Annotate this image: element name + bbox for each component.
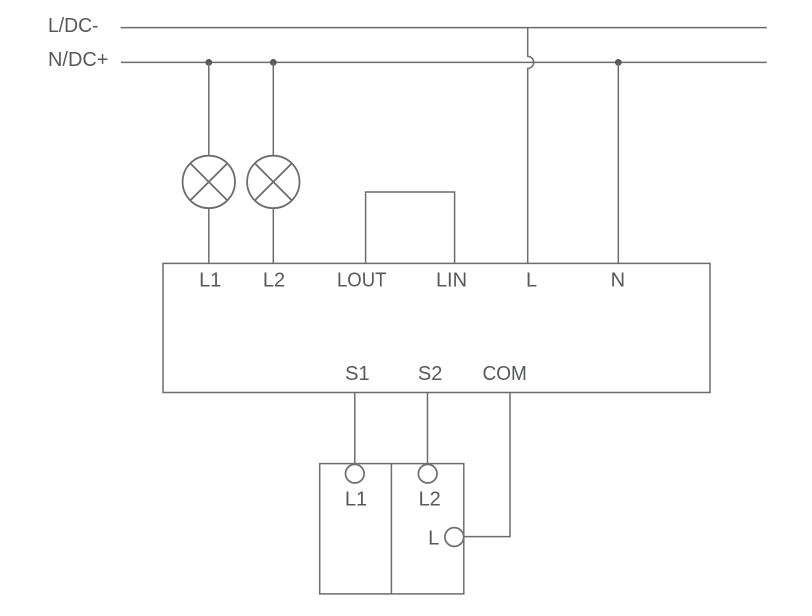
wire: L/DC- bus to terminal L (hop over N/DC+) — [528, 28, 534, 264]
terminal circle L (SW1) — [445, 528, 464, 547]
svg-text:L/DC-: L/DC- — [48, 15, 99, 37]
svg-text:L1: L1 — [345, 488, 367, 510]
svg-text:COM: COM — [483, 363, 527, 385]
svg-text:L1: L1 — [199, 269, 221, 291]
svg-text:LIN: LIN — [436, 269, 467, 291]
wire: N/DC+ bus to terminal N — [617, 62, 619, 263]
wire: S2 to switch SW1 terminal L2 — [427, 393, 429, 465]
svg-text:S2: S2 — [418, 363, 442, 385]
wire: COM to switch SW1 terminal L — [464, 393, 510, 537]
svg-text:S1: S1 — [345, 363, 369, 385]
wire: N/DC+ bus to lamp E2 — [272, 62, 274, 155]
svg-text:L2: L2 — [263, 269, 285, 291]
wire: lamp E2 to terminal L2 — [272, 208, 274, 263]
junction dot: lamp E2 tap on N/DC+ — [270, 59, 277, 66]
terminal circle L2 (SW1) — [418, 464, 437, 483]
junction dot: lamp E1 tap on N/DC+ — [205, 59, 212, 66]
svg-text:L: L — [526, 269, 537, 291]
wire loop: LOUT to LIN — [366, 192, 455, 263]
switch SW1 gang divider — [390, 464, 392, 594]
switch SW1 body — [320, 464, 464, 594]
controller module U1 body — [163, 263, 710, 392]
junction dot: terminal N tap on N/DC+ — [615, 59, 622, 66]
lamp E2 — [247, 156, 299, 208]
svg-text:L2: L2 — [419, 488, 441, 510]
bus wire N/DC+ — [121, 61, 767, 63]
terminal circle L1 (SW1) — [346, 464, 365, 483]
svg-text:LOUT: LOUT — [337, 269, 386, 291]
wire: N/DC+ bus to lamp E1 — [208, 62, 210, 155]
svg-text:L: L — [428, 527, 439, 549]
wire: lamp E1 to terminal L1 — [208, 208, 210, 263]
wire: S1 to switch SW1 terminal L1 — [354, 393, 356, 465]
svg-text:N: N — [611, 269, 625, 291]
lamp E1 — [183, 156, 235, 208]
bus wire L/DC- — [121, 27, 767, 29]
svg-text:N/DC+: N/DC+ — [48, 49, 108, 71]
